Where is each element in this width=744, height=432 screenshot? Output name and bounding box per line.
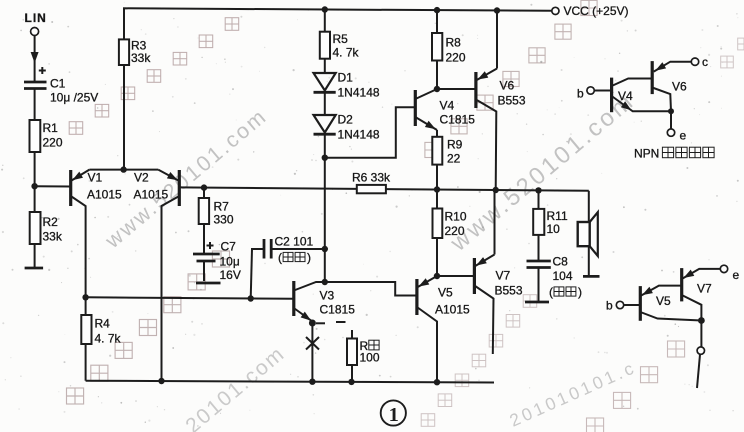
wire ground rail [86,381,494,383]
svg-text:b: b [577,87,584,101]
node R4 top / V1 collector [82,294,88,300]
wire emitter rail [89,169,158,171]
node V4 collector / V6 base [434,86,440,92]
wire V3 emitter to rail with X mark [306,323,319,382]
inset2 terminal b [606,299,640,313]
ground below C7 [196,282,221,285]
resistor R-gain 100 [347,330,380,382]
svg-text:c: c [702,55,708,69]
transistor V1 A1015 [35,170,122,298]
svg-text:e: e [733,268,740,282]
svg-text:R6 33k: R6 33k [352,171,391,185]
speaker [578,191,598,276]
svg-text:1N4148: 1N4148 [338,86,380,100]
svg-text:LIN: LIN [25,11,47,25]
node V3 collector [322,279,328,285]
svg-text:33k: 33k [131,51,151,65]
svg-text:16V: 16V [220,268,241,282]
svg-text:V6: V6 [672,80,687,94]
ground below C8 [525,301,549,304]
resistor R2 33k [30,186,63,267]
svg-text:C1: C1 [50,77,66,91]
svg-text:(: ( [278,251,282,265]
svg-text:V7: V7 [496,269,511,283]
resistor R10 220 [433,190,467,277]
inset2 transistor V7 [682,268,721,320]
svg-text:R11: R11 [547,209,568,223]
svg-text:1N4148: 1N4148 [338,128,380,142]
inset2 node collector junction [698,317,705,324]
svg-text:VCC (+25V): VCC (+25V) [564,4,629,18]
svg-text:e: e [680,129,687,143]
svg-text:V5: V5 [656,294,671,308]
svg-text:220: 220 [43,136,63,150]
transistor V7 B553 [437,190,523,354]
node rail / V2 collector [158,378,164,384]
svg-text:R10: R10 [445,210,467,224]
inset caption NPN compound [634,147,714,161]
svg-text:4. 7k: 4. 7k [333,46,360,60]
svg-text:A1015: A1015 [134,188,169,202]
adjust dash mark [336,321,346,323]
node V3 emitter [309,320,325,327]
node V1/V2 emitters [120,166,126,172]
svg-text:220: 220 [446,51,466,65]
svg-text:): ) [578,285,582,299]
transistor V4 C1815 [415,89,475,130]
capacitor C1 10u/25V [24,67,98,120]
node mid rail / R9-R10 [434,186,440,192]
node top rail / R5 [322,6,328,12]
svg-text:V1: V1 [88,171,103,185]
svg-text:10μ /25V: 10μ /25V [50,91,98,105]
svg-text:B553: B553 [495,284,523,298]
svg-text:R2: R2 [43,215,59,229]
svg-text:R1: R1 [43,121,59,135]
svg-text:): ) [307,251,311,265]
inset transistor V4 [612,78,671,113]
resistor R11 10 [533,190,568,261]
svg-text:NPN: NPN [634,147,659,161]
inset transistor V6 [652,61,691,111]
svg-text:b: b [606,299,613,313]
svg-text:22: 22 [447,152,461,166]
transistor V3 C1815 [294,281,417,323]
svg-text:C2 101: C2 101 [275,235,314,249]
svg-text:4. 7k: 4. 7k [95,332,122,346]
svg-text:V2: V2 [134,171,149,185]
svg-text:A1015: A1015 [87,188,122,202]
svg-text:104: 104 [553,269,573,283]
resistor R5 4.7k [320,10,360,74]
capacitor C7 10u 16V [193,240,241,283]
svg-text:V4: V4 [618,89,633,103]
inset2 terminal e [720,265,739,282]
capacitor C8 104 [527,255,583,302]
diode D1 1N4148 [314,71,380,116]
wire VCC top rail [124,8,552,39]
svg-text:33k: 33k [43,230,63,244]
svg-text:330: 330 [214,213,234,227]
svg-text:10μ: 10μ [220,255,240,269]
svg-text:D1: D1 [338,71,354,85]
svg-text:1: 1 [389,404,399,426]
figure number 1 [381,400,406,426]
ground below R2 [25,267,43,270]
svg-text:V5: V5 [438,286,453,300]
resistor R6 33k horizontal [352,171,391,194]
node V5 emitter / V7 base [434,273,440,279]
wire input arrow [31,36,39,82]
resistor R7 330 [199,188,234,254]
inset node e junction [668,108,674,114]
inset2 collector lead [697,321,705,389]
svg-text:C8: C8 [553,255,569,269]
svg-text:10: 10 [547,222,561,236]
resistor R4 4.7k [81,297,121,380]
node diode chain bottom [322,155,328,161]
node top rail / V6 emitter [494,7,500,13]
svg-text:C7: C7 [221,240,237,254]
capacitor C2 101 [251,235,325,299]
node R7 top [201,184,207,190]
inset terminal c [691,55,708,69]
transistor V5 A1015 [395,276,470,382]
svg-text:(: ( [549,285,553,299]
svg-text:V4: V4 [440,99,455,113]
node mid rail / R11 [535,187,541,193]
inset2 transistor V5 [640,286,701,321]
inset NPN compound: terminal b [577,87,612,101]
svg-text:R5: R5 [333,32,349,46]
node C2 left lead [248,295,254,301]
wire feedback line [86,297,294,299]
resistor R9 22 [432,130,462,190]
node rail / V5 collector [434,379,440,385]
svg-text:V6: V6 [500,79,515,93]
wire R6 to output rail [386,189,589,191]
inset terminal e [667,111,686,142]
svg-text:V3: V3 [320,289,335,303]
svg-text:V7: V7 [697,282,712,296]
ground below speaker [583,275,600,278]
transistor V6 B553 [437,11,526,191]
transistor V2 A1015 [134,170,180,381]
svg-text:D2: D2 [338,113,354,127]
svg-text:220: 220 [445,224,465,238]
resistor R1 220 [30,120,63,186]
svg-text:R8: R8 [446,36,462,50]
svg-text:B553: B553 [498,94,526,108]
VCC terminal [552,4,629,18]
svg-text:C1815: C1815 [440,113,476,127]
node rail / R-gain [348,379,354,385]
wire V2 base to R6 [179,187,356,189]
wire diode node to V4 base [325,107,416,157]
node mid rail / V6-V7 [493,187,499,193]
svg-text:100: 100 [360,351,380,365]
node top rail / R8 [434,7,440,13]
node C2 right [322,246,328,252]
svg-text:R7: R7 [214,200,230,214]
node LIN input terminal [25,11,47,36]
svg-text:R4: R4 [95,317,111,331]
svg-text:A1015: A1015 [435,303,470,317]
resistor R3 33k [119,39,151,170]
diode D2 1N4148 [314,113,380,158]
node rail / V3 emitter [309,379,315,385]
resistor R8 220 [432,10,466,89]
svg-text:C1815: C1815 [320,303,356,317]
node input / V1 base [31,183,37,189]
svg-text:R9: R9 [447,138,463,152]
wire bias vertical [324,158,326,282]
